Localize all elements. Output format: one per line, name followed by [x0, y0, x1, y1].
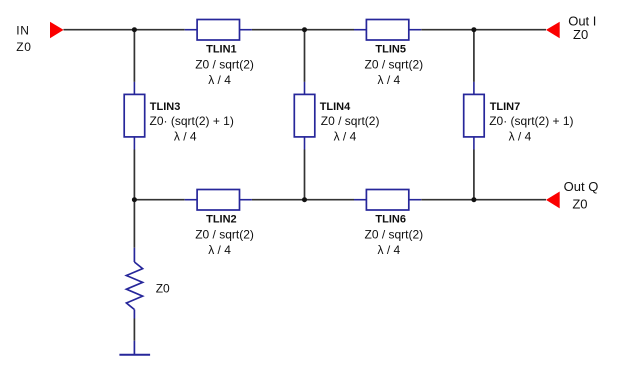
port IN [16, 22, 63, 54]
svg-text:λ / 4: λ / 4 [334, 129, 357, 143]
wire [473, 150, 475, 200]
svg-text:TLIN5: TLIN5 [375, 44, 406, 56]
node C [471, 27, 476, 32]
node A [132, 27, 137, 32]
node E [302, 197, 307, 202]
wire [252, 29, 354, 31]
svg-text:Z0: Z0 [573, 27, 588, 42]
label TLIN5 [365, 44, 424, 88]
svg-text:Z0 / sqrt(2): Z0 / sqrt(2) [195, 228, 254, 242]
svg-text:TLIN4: TLIN4 [320, 101, 351, 113]
wire [304, 30, 306, 82]
label TLIN2 [195, 214, 254, 258]
transmission line TLIN6 [354, 190, 421, 211]
transmission line TLIN2 [185, 190, 252, 211]
wire [134, 199, 184, 201]
label TLIN4 [320, 101, 380, 143]
svg-text:Z0 / sqrt(2): Z0 / sqrt(2) [321, 114, 380, 128]
svg-text:λ / 4: λ / 4 [174, 129, 197, 143]
svg-text:λ / 4: λ / 4 [509, 129, 532, 143]
node F [471, 197, 476, 202]
transmission line TLIN1 [185, 20, 252, 41]
port Out I [546, 13, 596, 42]
node B [302, 27, 307, 32]
label TLIN7 [489, 101, 573, 143]
wire [421, 199, 546, 201]
wire [252, 199, 354, 201]
wire [64, 29, 185, 31]
svg-text:TLIN1: TLIN1 [206, 44, 237, 56]
port Out Q [546, 179, 598, 212]
transmission line TLIN7 [464, 82, 485, 150]
svg-text:Z0: Z0 [156, 281, 170, 295]
svg-text:λ / 4: λ / 4 [378, 73, 401, 87]
wire [133, 150, 135, 200]
wire [473, 30, 475, 82]
svg-text:Out Q: Out Q [564, 179, 599, 194]
svg-text:Z0· (sqrt(2) + 1): Z0· (sqrt(2) + 1) [150, 114, 234, 128]
label TLIN3 [150, 101, 234, 143]
svg-text:Z0: Z0 [16, 40, 31, 54]
svg-text:TLIN6: TLIN6 [375, 214, 406, 226]
ground [119, 341, 150, 355]
wire [133, 200, 135, 248]
svg-text:λ / 4: λ / 4 [208, 73, 231, 87]
svg-text:λ / 4: λ / 4 [378, 243, 401, 257]
transmission line TLIN5 [354, 20, 421, 41]
label TLIN1 [195, 44, 254, 88]
wire [421, 29, 546, 31]
node D [132, 197, 137, 202]
svg-text:TLIN7: TLIN7 [490, 101, 521, 113]
svg-text:Z0 / sqrt(2): Z0 / sqrt(2) [195, 58, 254, 72]
wire [133, 319, 135, 341]
svg-text:Z0 / sqrt(2): Z0 / sqrt(2) [365, 228, 424, 242]
svg-text:TLIN3: TLIN3 [150, 101, 181, 113]
svg-text:Z0: Z0 [572, 197, 587, 212]
transmission line TLIN3 [124, 82, 145, 150]
svg-text:λ / 4: λ / 4 [208, 243, 231, 257]
transmission line TLIN4 [294, 82, 315, 150]
label TLIN6 [365, 214, 424, 258]
wire [304, 150, 306, 200]
resistor Z0 [126, 248, 142, 319]
svg-text:TLIN2: TLIN2 [206, 214, 237, 226]
svg-text:Z0 / sqrt(2): Z0 / sqrt(2) [365, 58, 424, 72]
svg-text:Z0· (sqrt(2) + 1): Z0· (sqrt(2) + 1) [489, 114, 573, 128]
svg-text:IN: IN [16, 24, 29, 38]
wire [133, 30, 135, 82]
